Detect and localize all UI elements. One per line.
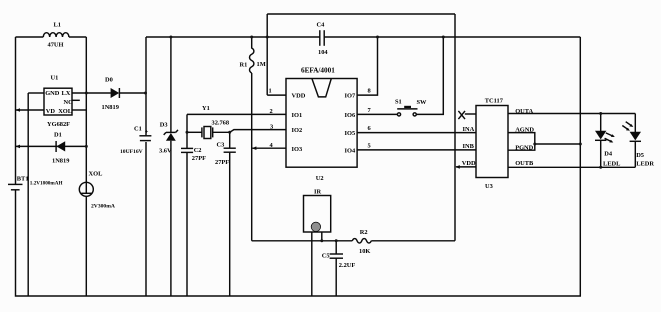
svg-text:IO5: IO5 xyxy=(345,130,356,137)
svg-text:IO6: IO6 xyxy=(345,112,356,119)
svg-text:1: 1 xyxy=(269,88,272,95)
svg-text:C4: C4 xyxy=(317,21,326,28)
svg-text:SW: SW xyxy=(417,99,428,106)
svg-text:R1: R1 xyxy=(240,62,248,69)
svg-text:8: 8 xyxy=(368,88,371,95)
svg-text:1.2V1800mAH: 1.2V1800mAH xyxy=(30,181,63,187)
svg-text:C3: C3 xyxy=(217,141,225,148)
svg-text:OUTA: OUTA xyxy=(515,108,533,115)
svg-text:D3: D3 xyxy=(160,122,168,129)
svg-text:IO3: IO3 xyxy=(292,146,303,153)
svg-text:VD: VD xyxy=(46,108,56,115)
svg-text:104: 104 xyxy=(318,49,328,56)
svg-text:L1: L1 xyxy=(54,22,61,29)
svg-text:27PF: 27PF xyxy=(192,155,206,162)
svg-text:1N819: 1N819 xyxy=(102,104,119,111)
svg-text:YG682F: YG682F xyxy=(47,121,70,128)
svg-text:XOL: XOL xyxy=(58,108,72,115)
svg-text:5: 5 xyxy=(368,143,371,150)
svg-text:D0: D0 xyxy=(105,77,113,84)
svg-text:C1: C1 xyxy=(134,126,142,133)
svg-text:PGND: PGND xyxy=(515,145,533,152)
svg-text:OUTB: OUTB xyxy=(515,160,534,167)
svg-text:IO7: IO7 xyxy=(345,92,356,99)
svg-text:+: + xyxy=(145,128,149,135)
svg-text:32.768: 32.768 xyxy=(212,119,230,126)
svg-text:XOL: XOL xyxy=(89,171,103,178)
svg-text:VDD: VDD xyxy=(462,160,476,167)
svg-text:INA: INA xyxy=(463,126,475,133)
svg-text:U3: U3 xyxy=(485,183,493,190)
svg-text:27PF: 27PF xyxy=(215,159,229,166)
svg-text:LEDR: LEDR xyxy=(636,161,654,168)
svg-text:TC117: TC117 xyxy=(485,98,504,105)
svg-text:1N819: 1N819 xyxy=(52,158,69,165)
svg-text:BT1: BT1 xyxy=(17,176,29,183)
svg-text:LX: LX xyxy=(62,90,71,97)
svg-text:GND: GND xyxy=(45,90,60,97)
svg-text:U2: U2 xyxy=(316,175,324,182)
svg-text:R2: R2 xyxy=(360,229,368,236)
svg-text:U1: U1 xyxy=(51,75,59,82)
svg-text:10K: 10K xyxy=(359,248,370,255)
svg-text:3: 3 xyxy=(270,124,273,131)
svg-text:2: 2 xyxy=(270,108,273,115)
svg-text:C5: C5 xyxy=(322,252,330,259)
svg-text:IO1: IO1 xyxy=(292,112,303,119)
svg-text:10UF16V: 10UF16V xyxy=(120,149,143,155)
svg-text:2V300mA: 2V300mA xyxy=(91,204,115,210)
svg-text:IO2: IO2 xyxy=(292,127,303,134)
svg-text:INB: INB xyxy=(463,143,475,150)
svg-text:Y1: Y1 xyxy=(202,105,210,112)
svg-text:C2: C2 xyxy=(194,147,202,154)
svg-text:3.6V: 3.6V xyxy=(159,148,172,155)
svg-text:S1: S1 xyxy=(395,99,402,106)
svg-text:47UH: 47UH xyxy=(48,42,64,49)
svg-text:IR: IR xyxy=(314,188,321,195)
svg-text:IO4: IO4 xyxy=(345,147,356,154)
svg-text:NC: NC xyxy=(64,99,74,106)
svg-text:AGND: AGND xyxy=(515,127,534,134)
svg-text:LEDL: LEDL xyxy=(603,161,620,168)
svg-text:VDD: VDD xyxy=(292,92,306,99)
svg-text:D5: D5 xyxy=(636,152,644,159)
svg-text:D1: D1 xyxy=(54,132,62,139)
svg-text:2.2UF: 2.2UF xyxy=(339,262,356,269)
svg-text:1M: 1M xyxy=(257,61,266,68)
svg-text:D4: D4 xyxy=(604,151,613,158)
svg-text:6EFA/4001: 6EFA/4001 xyxy=(301,66,335,74)
